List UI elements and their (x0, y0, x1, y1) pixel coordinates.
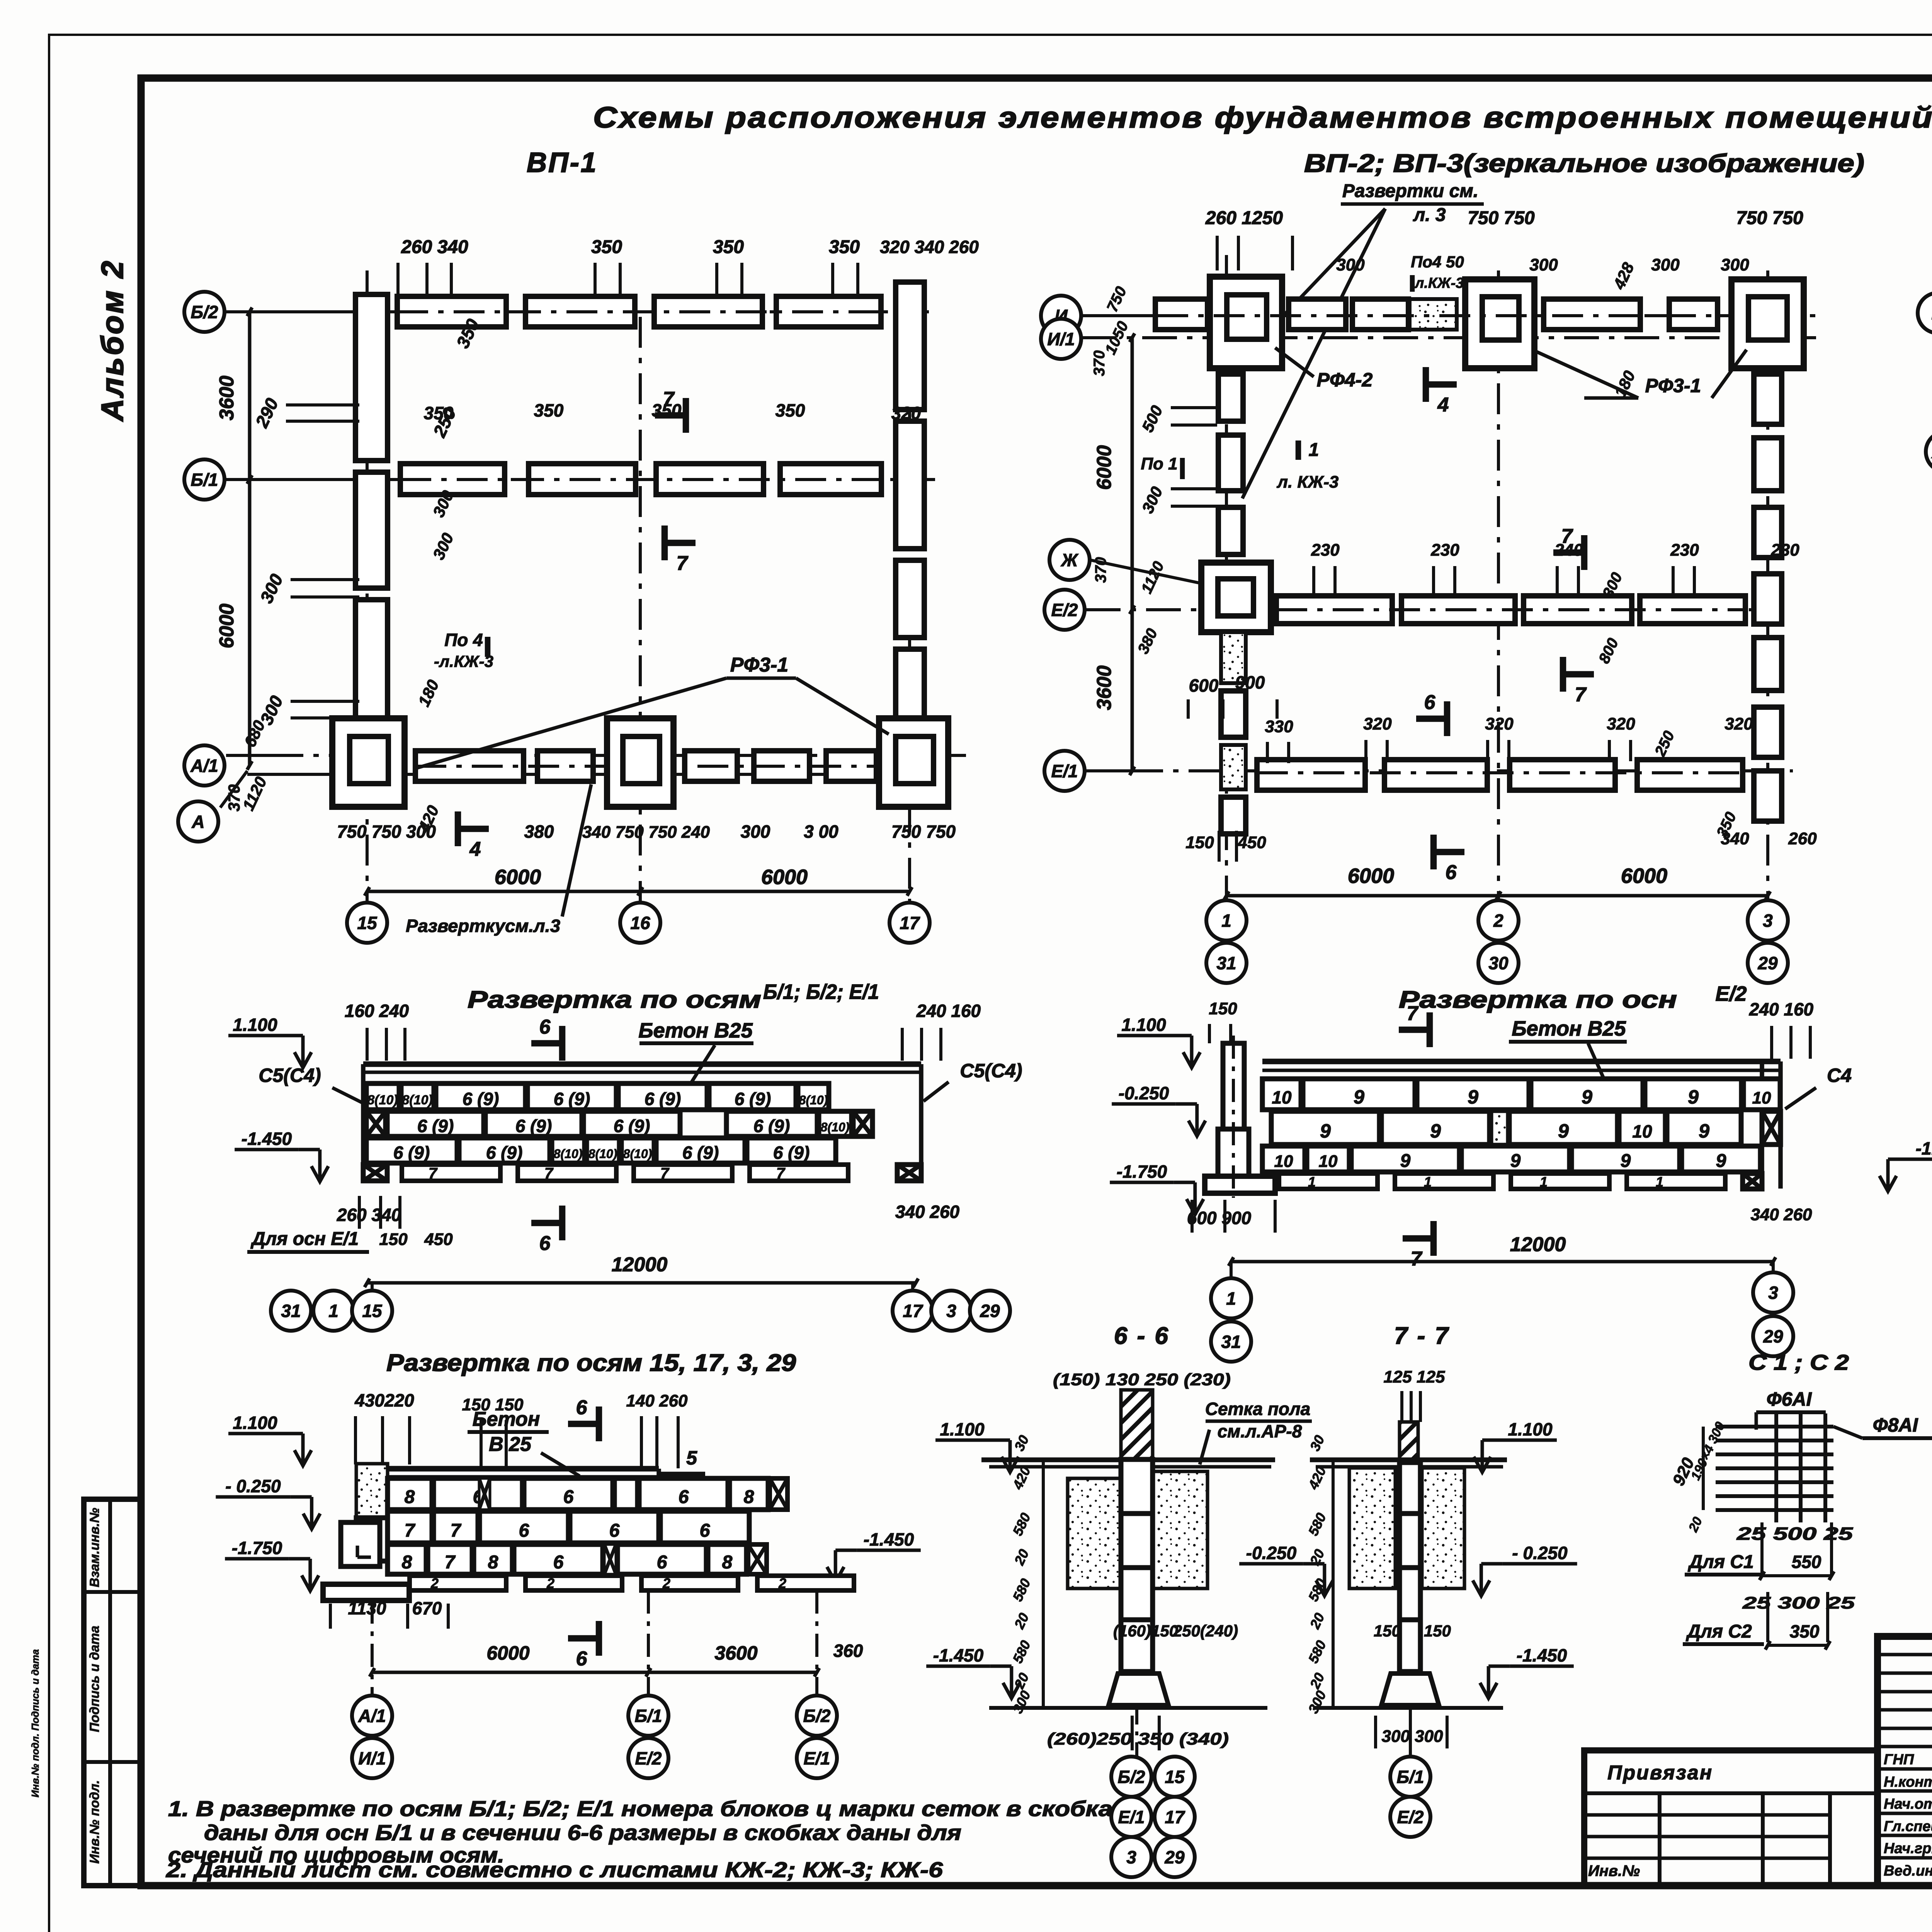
svg-text:Б/2: Б/2 (803, 1706, 831, 1726)
svg-text:6 (9): 6 (9) (393, 1143, 430, 1163)
section 6-6 footing (1109, 1673, 1168, 1705)
svg-text:340 260: 340 260 (895, 1202, 960, 1222)
section 7-7 axis circles (1390, 1757, 1430, 1797)
svg-text:750 750: 750 750 (891, 821, 956, 842)
svg-text:150: 150 (379, 1230, 408, 1249)
svg-text:340: 340 (1721, 829, 1749, 848)
title block outer box (1878, 1636, 1932, 1886)
svg-text:29: 29 (1757, 953, 1778, 973)
svg-text:1: 1 (1540, 1174, 1548, 1190)
svg-text:6 (9): 6 (9) (682, 1143, 719, 1163)
svg-text:8(10): 8(10) (623, 1147, 652, 1161)
svg-text:7: 7 (1575, 684, 1587, 706)
plan VP-2 pad at Zh-E/2 (1201, 563, 1271, 632)
razvertka 15-17 row2 (388, 1511, 432, 1543)
section 6-6 column blocks (1121, 1459, 1153, 1514)
svg-text:30: 30 (1011, 1433, 1032, 1454)
svg-text:6 (9): 6 (9) (645, 1089, 681, 1109)
razvertka E/2 section marker 7 bottom (1403, 1235, 1434, 1242)
svg-text:9: 9 (1430, 1120, 1441, 1142)
razvertka 15-17 section marker 6 top (568, 1421, 599, 1427)
section 7-7 concrete left (1349, 1468, 1395, 1588)
svg-text:12000: 12000 (612, 1253, 668, 1276)
svg-text:Для осн Е/1: Для осн Е/1 (250, 1229, 359, 1249)
svg-text:12000: 12000 (1510, 1233, 1566, 1256)
plan VP-2 axis circle 3 (1748, 900, 1788, 940)
svg-text:340 260: 340 260 (1750, 1205, 1812, 1224)
svg-text:6000: 6000 (1093, 445, 1116, 490)
svg-text:1.100: 1.100 (1121, 1015, 1166, 1035)
svg-text:6000: 6000 (761, 866, 808, 889)
svg-text:17: 17 (900, 913, 920, 933)
svg-text:6: 6 (679, 1487, 689, 1507)
svg-text:340 750 750 240: 340 750 750 240 (582, 823, 710, 842)
svg-text:9: 9 (1510, 1151, 1521, 1171)
plan VP-4 axis circle zh/1 (1926, 432, 1932, 472)
svg-text:1: 1 (1309, 440, 1319, 460)
svg-text:С5(С4): С5(С4) (259, 1065, 321, 1086)
plan VP-1 axis line B/2 (226, 310, 390, 313)
razvertka 15-17 section marker 6 bottom (568, 1635, 599, 1642)
svg-text:6: 6 (576, 1648, 588, 1670)
svg-text:Инв.№: Инв.№ (1588, 1862, 1640, 1879)
svg-text:2: 2 (662, 1575, 670, 1591)
razvertka B bottom strip (363, 1165, 387, 1181)
razvertka B span dim (367, 1281, 916, 1285)
section 6-6 column top hatched (1121, 1390, 1153, 1459)
svg-text:31: 31 (1221, 1332, 1241, 1352)
plan VP-1 row centerline overlays (397, 310, 885, 313)
section 7-7 column blocks (1400, 1463, 1420, 1514)
svg-text:10: 10 (1319, 1152, 1338, 1171)
svg-text:6 (9): 6 (9) (735, 1089, 771, 1109)
svg-text:250: 250 (1651, 728, 1678, 759)
svg-text:160 240: 160 240 (345, 1001, 409, 1021)
svg-text:670: 670 (412, 1598, 442, 1618)
plan VP-1 right wall axis 17 (896, 282, 924, 410)
svg-text:- 0.250: - 0.250 (225, 1476, 281, 1496)
plan VP-2 axis line Zh (1090, 560, 1202, 583)
plan VP-2 span dimension line (1226, 894, 1768, 898)
svg-text:8: 8 (405, 1487, 415, 1507)
svg-text:7: 7 (660, 1165, 670, 1182)
svg-text:300: 300 (1651, 255, 1680, 274)
svg-text:125 125: 125 125 (1383, 1367, 1445, 1386)
svg-text:600: 600 (1189, 675, 1219, 696)
svg-text:20: 20 (1011, 1670, 1032, 1692)
svg-text:В 25: В 25 (489, 1433, 532, 1456)
svg-text:140 260: 140 260 (626, 1391, 688, 1410)
svg-text:300: 300 (429, 530, 457, 562)
plan VP-1 left dimension chain (248, 312, 252, 765)
svg-text:1: 1 (1226, 1289, 1236, 1309)
razvertka B axis circles right (893, 1291, 933, 1331)
svg-text:Разверткусм.л.3: Разверткусм.л.3 (406, 916, 560, 936)
svg-text:20: 20 (1685, 1515, 1705, 1534)
svg-text:6000: 6000 (486, 1642, 529, 1664)
svg-text:6 (9): 6 (9) (417, 1116, 454, 1136)
plan VP-1 footing pad RF3-1 at axis 16 (607, 718, 673, 807)
plan VP-2 left dimension chain (1131, 338, 1134, 771)
svg-text:31: 31 (281, 1301, 301, 1321)
plan VP-2 axis circle E/2 (1044, 590, 1085, 630)
plan VP-2 section marker 6 lower (1434, 849, 1464, 855)
section 6-6 concrete left (1068, 1478, 1121, 1588)
razvertka B section marker 6 top (531, 1040, 562, 1047)
svg-text:320: 320 (1485, 714, 1514, 733)
svg-text:350: 350 (591, 237, 622, 257)
svg-text:15: 15 (1165, 1767, 1185, 1787)
razvertka B row2 blocks (366, 1111, 386, 1136)
svg-text:230: 230 (1770, 541, 1799, 560)
svg-text:-л.КЖ-3: -л.КЖ-3 (434, 652, 493, 670)
svg-text:800: 800 (1595, 636, 1622, 666)
razvertka 15-17 row1 (388, 1478, 432, 1510)
svg-text:580: 580 (1009, 1576, 1034, 1604)
svg-text:Б/1: Б/1 (1397, 1767, 1424, 1787)
svg-text:Развертка по осн: Развертка по осн (1399, 986, 1677, 1013)
svg-text:9: 9 (1468, 1086, 1478, 1108)
plan VP-2 axis 2 centerline (1497, 270, 1500, 902)
plan VP-2 pad at axis 2 (1465, 279, 1534, 368)
svg-text:10: 10 (1274, 1152, 1293, 1171)
svg-text:Вед.инж.: Вед.инж. (1884, 1863, 1932, 1879)
plan VP-1 axis 17 centerline (908, 294, 911, 902)
svg-text:-1.450: -1.450 (933, 1645, 984, 1665)
svg-text:320: 320 (1363, 714, 1392, 733)
svg-text:Бетон В25: Бетон В25 (1512, 1017, 1626, 1040)
svg-text:А/1: А/1 (190, 756, 218, 776)
svg-text:-0.250: -0.250 (1119, 1083, 1169, 1103)
svg-text:6: 6 (539, 1232, 551, 1255)
svg-text:300: 300 (1721, 255, 1749, 274)
svg-text:Бетон В25: Бетон В25 (638, 1019, 753, 1042)
svg-text:Развертка по осям 15, 17, 3, 2: Развертка по осям 15, 17, 3, 29 (386, 1350, 796, 1376)
svg-text:Н.контр.: Н.контр. (1884, 1774, 1932, 1790)
svg-text:7: 7 (677, 552, 689, 575)
svg-text:240 160: 240 160 (916, 1001, 981, 1021)
section 7-7 column top hatched (1400, 1422, 1418, 1461)
svg-text:8: 8 (402, 1552, 412, 1573)
svg-text:3600: 3600 (216, 376, 238, 420)
svg-text:6 (9): 6 (9) (753, 1116, 790, 1136)
plan VP-1 axis 15 centerline (366, 270, 369, 902)
svg-text:580: 580 (1305, 1510, 1329, 1538)
plan VP-1 axis circle 16 (620, 903, 660, 943)
svg-text:6 (9): 6 (9) (515, 1116, 552, 1136)
plan VP-2 axis circle 2 (1478, 900, 1519, 940)
svg-text:7: 7 (776, 1165, 786, 1182)
svg-text:6 (9): 6 (9) (486, 1143, 523, 1163)
svg-text:2: 2 (1493, 911, 1503, 931)
svg-text:(160)150: (160)150 (1113, 1622, 1178, 1640)
svg-text:1130: 1130 (348, 1598, 386, 1618)
svg-text:Б/2: Б/2 (1118, 1767, 1145, 1787)
plan VP-2 wall row E/2 (1276, 596, 1392, 624)
svg-text:Б/1; Б/2; Е/1: Б/1; Б/2; Е/1 (763, 980, 879, 1003)
plan VP-1 axis line B/1 (226, 478, 398, 481)
svg-text:Развертка по осям: Развертка по осям (468, 986, 761, 1013)
svg-text:3: 3 (1763, 911, 1773, 931)
svg-text:1.100: 1.100 (233, 1413, 277, 1433)
svg-text:РФ3-1: РФ3-1 (730, 654, 788, 676)
svg-text:29: 29 (1763, 1327, 1783, 1347)
plan VP-2 axis circle 29 (1748, 943, 1788, 983)
svg-text:2. Данный лист см. совместно с: 2. Данный лист см. совместно с листами К… (166, 1857, 943, 1882)
svg-text:Ф6АI: Ф6АI (1767, 1388, 1812, 1410)
razvertka 15-17 row3 (388, 1544, 426, 1574)
svg-text:3: 3 (946, 1301, 956, 1321)
plan VP-1 axis circle 15 (347, 903, 387, 943)
svg-text:6: 6 (700, 1520, 710, 1541)
plan VP-2 left wall below pad 1 (1218, 374, 1243, 421)
svg-text:180: 180 (415, 677, 442, 709)
svg-text:1: 1 (1656, 1174, 1663, 1190)
svg-text:370: 370 (1091, 350, 1108, 376)
svg-text:450: 450 (1237, 833, 1266, 852)
svg-text:8: 8 (744, 1487, 754, 1507)
svg-text:300: 300 (1305, 1688, 1329, 1716)
plan VP-1 footing pad RF3-1 at axis 17 (879, 718, 948, 807)
svg-text:450: 450 (424, 1230, 453, 1249)
svg-text:1: 1 (1424, 1174, 1432, 1190)
svg-text:260: 260 (1788, 829, 1817, 848)
svg-text:7: 7 (429, 1165, 438, 1182)
svg-text:Б/1: Б/1 (191, 470, 218, 490)
plan VP-2 wall row E/1 (1257, 760, 1365, 790)
svg-text:4: 4 (1437, 394, 1449, 416)
svg-text:260 1250: 260 1250 (1205, 208, 1283, 228)
svg-text:7 - 7: 7 - 7 (1394, 1323, 1450, 1349)
svg-text:3 00: 3 00 (804, 821, 838, 842)
svg-text:РФ3-1: РФ3-1 (1645, 375, 1701, 396)
razvertka 15-17 bottom strip (410, 1576, 506, 1590)
razvertka 15-17 left footing (341, 1522, 380, 1566)
plan VP-1 axis circle A (178, 801, 218, 842)
razvertka E/2 row1 blocks (1262, 1079, 1301, 1110)
svg-text:230: 230 (1311, 541, 1340, 560)
rebar C1-C2 mesh (1716, 1425, 1833, 1429)
svg-text:7: 7 (1561, 525, 1573, 548)
plan VP-2 axis circle Zh (1049, 540, 1090, 580)
plan VP-2 row centerline overlays (1157, 314, 1718, 317)
plan VP-2 axis 3 centerline (1766, 270, 1769, 902)
svg-text:-1.450: -1.450 (1517, 1645, 1567, 1665)
plan VP-2 right wall axis 3 (1754, 374, 1782, 424)
svg-text:6 - 6: 6 - 6 (1114, 1323, 1170, 1349)
svg-text:3: 3 (1768, 1283, 1778, 1303)
svg-text:7: 7 (445, 1552, 456, 1573)
svg-text:Подпись и дата: Подпись и дата (87, 1626, 102, 1732)
title block left grid rows upper (1878, 1653, 1932, 1656)
svg-text:-1.450: -1.450 (241, 1129, 292, 1149)
svg-text:Ф8АI: Ф8АI (1873, 1414, 1918, 1436)
svg-text:Бетон: Бетон (473, 1408, 540, 1430)
svg-text:Б/1: Б/1 (635, 1706, 662, 1726)
title block left grid rows names (1878, 1767, 1932, 1771)
svg-text:6: 6 (657, 1552, 667, 1573)
svg-text:Б/2: Б/2 (191, 302, 218, 322)
svg-text:150: 150 (1374, 1622, 1401, 1640)
svg-text:С4: С4 (1827, 1065, 1852, 1086)
svg-text:20: 20 (1306, 1611, 1328, 1632)
plan VP-1 axis circle B/2 (184, 292, 224, 332)
plan VP-2 pad RF4-2 at axis 1 (1210, 277, 1282, 368)
svg-text:2: 2 (430, 1575, 439, 1591)
svg-text:20: 20 (1011, 1611, 1032, 1632)
svg-text:6: 6 (519, 1520, 529, 1541)
svg-text:По 4: По 4 (444, 630, 483, 650)
plan VP-1 span dimension line (367, 890, 910, 893)
plan VP-1 left wall axis 15 (355, 294, 388, 461)
section 6-6 concrete right (1153, 1471, 1207, 1588)
svg-text:Ж: Ж (1061, 550, 1079, 570)
svg-text:320 340 260: 320 340 260 (880, 237, 979, 257)
razvertka 15-17 axis circles (352, 1696, 392, 1736)
svg-text:-1.750: -1.750 (1117, 1162, 1167, 1182)
section 6-6 floor line (981, 1458, 1275, 1463)
svg-text:По 1: По 1 (1141, 454, 1177, 473)
svg-text:350: 350 (1790, 1621, 1820, 1641)
svg-text:25 300 25: 25 300 25 (1742, 1594, 1855, 1612)
svg-text:1: 1 (1308, 1174, 1316, 1190)
svg-text:-1.45: -1.45 (1916, 1138, 1932, 1158)
svg-text:240 160: 240 160 (1749, 999, 1814, 1019)
razvertka E/2 row2 blocks (1271, 1111, 1379, 1145)
svg-text:29: 29 (980, 1301, 1000, 1321)
svg-text:500: 500 (1138, 403, 1166, 435)
svg-text:Инв.№ подл. Подпись и дата: Инв.№ подл. Подпись и дата (29, 1649, 41, 1798)
svg-text:Е/2: Е/2 (1397, 1807, 1423, 1827)
svg-text:8: 8 (722, 1552, 733, 1573)
svg-text:2: 2 (546, 1575, 554, 1591)
plan VP-1 axis circle A/1 (184, 745, 224, 786)
svg-text:350: 350 (829, 237, 860, 257)
svg-text:10: 10 (1632, 1121, 1652, 1141)
section 7-7 floor line (1310, 1458, 1507, 1463)
section 7-7 ground line (1314, 1706, 1503, 1710)
plan VP-2 axis circle 30 (1478, 943, 1519, 983)
svg-text:10: 10 (1752, 1088, 1771, 1107)
plan VP-1 axis line A (247, 773, 951, 776)
plan VP-2 axis circle E/1 (1044, 751, 1085, 791)
razvertka 15-17 row1 right (639, 1478, 728, 1510)
svg-text:Е/1: Е/1 (1051, 761, 1078, 781)
svg-text:Альбом 2: Альбом 2 (95, 259, 129, 422)
svg-text:9: 9 (1688, 1086, 1699, 1108)
svg-text:150: 150 (1185, 833, 1214, 852)
svg-text:6: 6 (539, 1016, 551, 1038)
plan VP-2 axis circle I/1 (1041, 319, 1081, 359)
svg-text:- 0.250: - 0.250 (1512, 1543, 1568, 1563)
svg-text:190×4 300: 190×4 300 (1688, 1420, 1728, 1483)
svg-text:6: 6 (609, 1520, 620, 1541)
svg-text:Е/1: Е/1 (803, 1748, 830, 1769)
svg-text:7: 7 (405, 1520, 416, 1541)
razvertka E/2 axis circles (1211, 1278, 1251, 1318)
svg-text:320: 320 (1607, 714, 1635, 733)
svg-text:29: 29 (1164, 1847, 1185, 1867)
svg-text:8(10): 8(10) (821, 1120, 850, 1134)
plan VP-2 axis circle 1 (1206, 900, 1247, 940)
svg-text:4: 4 (469, 838, 481, 861)
svg-text:А/1: А/1 (358, 1706, 386, 1726)
svg-text:230: 230 (1670, 541, 1699, 560)
svg-text:6000: 6000 (216, 604, 238, 648)
svg-text:По4 50: По4 50 (1411, 253, 1464, 271)
svg-text:428: 428 (1609, 260, 1638, 293)
svg-text:Е/2: Е/2 (1051, 600, 1078, 620)
svg-text:ВП-2; ВП-3(зеркальное изображ: ВП-2; ВП-3(зеркальное изображение) (1304, 149, 1864, 177)
svg-text:330: 330 (1265, 717, 1293, 736)
svg-text:7: 7 (663, 388, 675, 410)
svg-text:см.л.АР-8: см.л.АР-8 (1218, 1421, 1302, 1441)
plan VP-2 section marker 4 (1426, 381, 1457, 388)
svg-text:5: 5 (686, 1447, 697, 1469)
plan VP-1 footing pad RF3-1 at axis 15 (332, 718, 405, 807)
svg-text:л.КЖ-3: л.КЖ-3 (1414, 275, 1464, 291)
svg-text:16: 16 (630, 913, 650, 933)
svg-text:8(10): 8(10) (367, 1093, 398, 1107)
razvertka E/2 row3 blocks (1262, 1146, 1305, 1172)
razvertka B axis circles left (271, 1291, 311, 1331)
svg-text:580: 580 (1009, 1510, 1034, 1538)
svg-text:С5(С4): С5(С4) (960, 1060, 1022, 1082)
plan VP-2 section marker 6 upper (1416, 716, 1447, 722)
svg-text:8(10): 8(10) (588, 1147, 617, 1161)
svg-text:6 (9): 6 (9) (554, 1089, 590, 1109)
svg-text:750: 750 (1104, 284, 1130, 315)
svg-text:300: 300 (1336, 255, 1365, 274)
svg-text:И/1: И/1 (1047, 329, 1075, 349)
svg-text:1: 1 (1221, 911, 1231, 931)
left margin stamp column (84, 1499, 141, 1886)
plan VP-4 axis circle I (1918, 293, 1932, 333)
svg-text:6 (9): 6 (9) (773, 1143, 810, 1163)
svg-text:8(10): 8(10) (554, 1147, 583, 1161)
razvertka 15-17 slab (388, 1466, 659, 1472)
plan VP-2 section marker 1 (1296, 440, 1301, 460)
svg-text:Взам.инв.№: Взам.инв.№ (87, 1508, 102, 1587)
svg-text:ВП-1: ВП-1 (527, 147, 598, 178)
svg-text:7: 7 (544, 1165, 554, 1182)
plan VP-2 left wall below E/2 pad (1221, 632, 1246, 683)
section 7-7 footing (1381, 1673, 1439, 1705)
svg-text:РФ4-2: РФ4-2 (1317, 369, 1373, 391)
svg-text:430220: 430220 (354, 1390, 414, 1410)
svg-text:6000: 6000 (495, 866, 541, 889)
svg-text:30: 30 (1307, 1433, 1328, 1454)
section 6-6 axis circles (1111, 1757, 1151, 1797)
plan VP-1 axis circle 17 (889, 903, 930, 943)
svg-text:380: 380 (1134, 626, 1161, 656)
svg-text:(150) 130 250 (230): (150) 130 250 (230) (1053, 1370, 1231, 1389)
plan VP-2 axis line I/1 (1082, 336, 1816, 339)
svg-text:6: 6 (563, 1487, 574, 1507)
svg-text:6 (9): 6 (9) (614, 1116, 650, 1136)
svg-text:17: 17 (903, 1301, 923, 1321)
svg-text:1120: 1120 (1138, 559, 1167, 596)
plan VP-2 axis line E/2 (1086, 608, 1793, 611)
svg-text:л. 3: л. 3 (1413, 205, 1446, 225)
svg-text:580: 580 (1009, 1638, 1034, 1666)
plan VP-2 pad RF3-1 at axis 3 (1731, 279, 1804, 368)
svg-text:-0.250: -0.250 (1246, 1543, 1297, 1563)
svg-text:ГНП: ГНП (1884, 1752, 1914, 1768)
svg-text:6: 6 (1446, 861, 1457, 884)
plan VP-2 axis circle 31 (1206, 943, 1247, 983)
svg-text:15: 15 (357, 913, 378, 933)
